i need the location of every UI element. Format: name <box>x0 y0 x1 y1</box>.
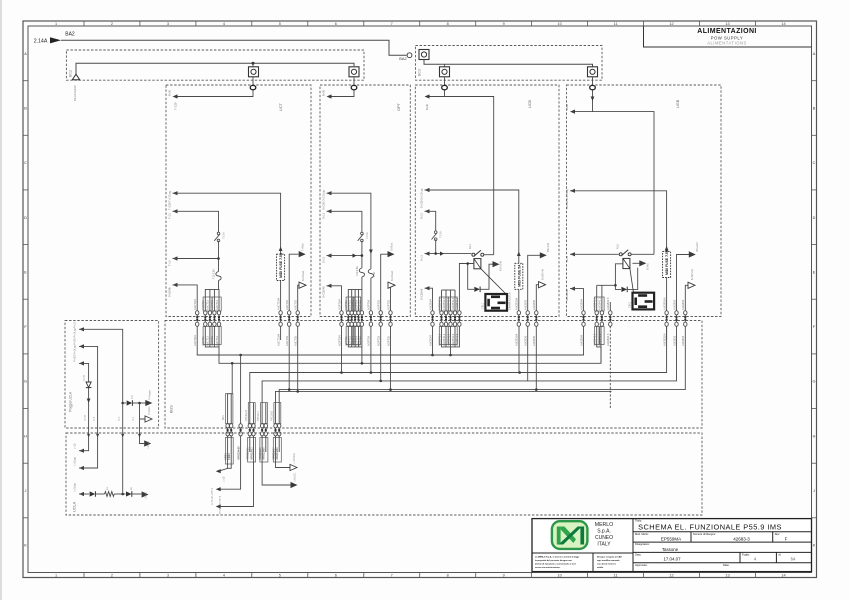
node junction UCB switch <box>434 252 437 255</box>
svg-text:AUCT14: AUCT14 <box>215 299 219 310</box>
svg-text:T+L3: T+L3 <box>169 260 172 266</box>
svg-text:B: B <box>24 107 27 111</box>
wire bus tap pair BR1 <box>231 362 234 365</box>
wire UGB to arrow B+5Po4 right <box>685 285 688 311</box>
svg-text:JC-18: JC-18 <box>85 414 87 421</box>
svg-text:Approvato:: Approvato: <box>635 563 648 567</box>
svg-text:B+15ae1: B+15ae1 <box>301 270 305 281</box>
relay RL2 coil <box>623 258 630 268</box>
svg-text:B.Po24d: B.Po24d <box>499 260 503 271</box>
svg-text:2.4m/BLK/UCLA: 2.4m/BLK/UCLA <box>508 292 511 310</box>
wire UGB net G+CB to fuse <box>570 189 575 193</box>
svg-text:F1 5A: F1 5A <box>223 232 226 239</box>
svg-text:13: 13 <box>725 22 729 26</box>
svg-text:B+5(Po4): B+5(Po4) <box>541 269 545 280</box>
svg-text:H: H <box>813 434 816 438</box>
svg-text:MIDI FUSE 7.5A: MIDI FUSE 7.5A <box>665 249 669 275</box>
connector BC2-1 <box>252 62 255 65</box>
pins UGB bottom connector row <box>583 311 585 327</box>
svg-text:AUGB35: AUGB35 <box>681 299 685 310</box>
svg-text:AUCT3/4: AUCT3/4 <box>193 335 197 346</box>
svg-text:F1 5A: F1 5A <box>366 232 369 239</box>
wire BC3-2 to UCB <box>444 77 446 86</box>
breaker F12 UCT <box>218 259 220 272</box>
wire UCB net B+L3 to relay RL1 <box>425 252 430 256</box>
svg-text:Data:: Data: <box>723 563 729 567</box>
svg-text:AUGB3/4: AUGB3/4 <box>579 334 583 346</box>
svg-text:B+13: B+13 <box>421 213 424 219</box>
svg-text:5: 5 <box>279 22 281 26</box>
module box OPT <box>320 85 410 317</box>
svg-text:AUGB33: AUGB33 <box>672 299 676 310</box>
label boxes UCT cluster <box>203 297 212 311</box>
wire UCLA right net e <box>262 436 291 485</box>
wire net P+LS <box>79 327 84 331</box>
diode D2 UGB <box>621 287 627 292</box>
svg-text:Disegnatore:: Disegnatore: <box>635 542 650 546</box>
relay RL1 coil <box>474 259 481 269</box>
wire pair mate 2 <box>253 403 255 424</box>
svg-text:AUGB35: AUGB35 <box>681 335 685 346</box>
node junction pioggia <box>121 402 124 405</box>
svg-text:D: D <box>24 216 27 220</box>
svg-text:UGB: UGB <box>676 99 680 108</box>
node junction UCT <box>217 257 220 260</box>
svg-text:CBL1: CBL1 <box>481 302 484 309</box>
svg-text:T+C3B T+C.BLog: T+C3B T+C.BLog <box>169 190 172 210</box>
svg-text:B9+24d: B9+24d <box>546 242 550 252</box>
wire UCLA net L+3Log <box>79 466 84 470</box>
wire UCLA right net c <box>219 436 254 507</box>
svg-text:4: 4 <box>223 22 225 26</box>
wire BA2 rail <box>61 40 407 55</box>
wire UGB to arrow B+Fuse <box>677 255 690 312</box>
module box UCB <box>415 85 559 317</box>
svg-text:SCHEMA EL. FUNZIONALE P55.9: SCHEMA EL. FUNZIONALE P55.9 IMS <box>638 522 782 531</box>
switch F1 OPT <box>361 232 364 235</box>
svg-text:AUCB35: AUCB35 <box>532 299 536 310</box>
svg-text:O+13: O+13 <box>323 212 326 219</box>
svg-text:AOPT33: AOPT33 <box>377 299 381 310</box>
label box pair BR1 <box>225 394 233 424</box>
module box UGB <box>567 85 722 317</box>
svg-text:L+/3Log: L+/3Log <box>74 483 77 492</box>
svg-text:AOPT12: AOPT12 <box>348 299 352 310</box>
svg-text:2: 2 <box>111 22 113 26</box>
label box pair 2 <box>248 403 255 424</box>
connector block CBL1 <box>485 294 507 311</box>
wire UCB net B+CB to fuse <box>425 188 430 192</box>
wire bus tap FHC2A+B <box>240 355 242 424</box>
svg-text:P+LS: P+LS <box>74 322 77 328</box>
svg-text:AOPT34: AOPT34 <box>367 299 371 310</box>
arrow B.Motorino UGB <box>633 262 640 264</box>
arrow flow marker UCB <box>440 252 444 256</box>
svg-text:FHC1A.1: FHC1A.1 <box>257 410 260 421</box>
svg-text:12: 12 <box>669 574 673 578</box>
wire pioggia to P+Power <box>123 402 126 404</box>
title block rows <box>633 531 812 533</box>
svg-text:42683-3: 42683-3 <box>733 536 750 541</box>
svg-text:B+C3B/A8: B+C3B/A8 <box>421 288 424 300</box>
wire UCB to arrow B+5Po4 <box>536 285 538 311</box>
sheet header box ALIMENTAZIONI <box>644 26 812 47</box>
svg-text:AOPT14: AOPT14 <box>354 299 358 310</box>
svg-text:CBL2: CBL2 <box>629 301 632 308</box>
svg-text:B.Mot: B.Mot <box>645 263 649 270</box>
svg-text:H: H <box>24 434 27 438</box>
svg-text:B: B <box>813 107 816 111</box>
svg-text:7: 7 <box>391 22 393 26</box>
svg-text:12: 12 <box>669 22 673 26</box>
svg-text:P+/SD P+/3Log: P+/SD P+/3Log <box>74 328 77 345</box>
label boxes OPT cluster <box>346 297 354 311</box>
svg-text:AUGB3/4: AUGB3/4 <box>579 298 583 310</box>
frame ruler ticks and letters left/right <box>23 81 817 518</box>
frame ruler ticks and numbers top/bottom <box>84 21 756 578</box>
link line RL2 to connector CBL2 <box>630 269 634 293</box>
svg-text:G+L3: G+L3 <box>566 255 569 262</box>
svg-text:CUNEO: CUNEO <box>595 535 613 541</box>
wire UGB net G+30 single pin <box>570 287 575 291</box>
wire RL2 coil loop with diode <box>615 264 623 290</box>
svg-text:P+Power: P+Power <box>148 390 151 400</box>
pins UCB bottom connector row <box>432 311 434 327</box>
wire bus stubs misc <box>280 326 282 340</box>
svg-text:L+5/Po4o: L+5/Po4o <box>293 453 296 464</box>
arrow B+24d UCB <box>493 261 500 267</box>
wire OPT net O+13 to switch <box>327 209 332 213</box>
svg-text:4: 4 <box>223 574 225 578</box>
svg-text:J: J <box>813 489 815 493</box>
svg-text:B+15ae1: B+15ae1 <box>390 270 394 281</box>
wires pioggia into UCLA <box>88 424 90 438</box>
node UCT supply entry circle <box>250 85 256 89</box>
svg-text:B+C3B B+C.BLog: B+C3B B+C.BLog <box>421 188 424 208</box>
arrow flow marker OPT riser <box>369 250 373 255</box>
svg-text:divieto di riprodurlo o comuni: divieto di riprodurlo o comunicarlo a te… <box>535 563 576 566</box>
wire UCT net B+30Wh <box>173 283 178 287</box>
svg-text:F12 0.5A: F12 0.5A <box>356 266 359 276</box>
svg-text:1: 1 <box>55 22 57 26</box>
pins UCT bottom connector row <box>196 311 198 327</box>
wire BC2-2 to OPT <box>353 77 355 86</box>
svg-text:K: K <box>813 544 816 548</box>
svg-text:8: 8 <box>447 22 449 26</box>
wire bus net 5 <box>279 326 685 424</box>
wire UGB supply to relay riser <box>593 112 655 255</box>
wire UCB supply entry <box>426 91 445 97</box>
svg-text:UCT: UCT <box>279 103 283 111</box>
wire bus net 2 <box>219 347 601 363</box>
svg-text:2.5A: 2.5A <box>373 272 376 277</box>
wire UCLA net L+15 <box>79 449 84 453</box>
breaker F12 OPT <box>361 256 363 268</box>
svg-text:Gm35Ao Gm30o.4: Gm35Ao Gm30o.4 <box>219 495 222 514</box>
svg-text:G: G <box>813 380 816 384</box>
wire OPT net O+30Wh <box>327 284 332 288</box>
wire bus tap UCB comb <box>442 326 460 347</box>
node junction UCLA <box>121 493 124 496</box>
fuse MIDI FUSE UCB <box>515 263 523 289</box>
wire UCT to arrow T+Batt <box>289 254 299 311</box>
svg-text:AUCB31/4: AUCB31/4 <box>515 333 519 346</box>
node UCB supply entry circle <box>442 85 448 89</box>
disclaimer cells <box>532 552 633 554</box>
svg-text:AUGB41.2: AUGB41.2 <box>598 297 602 310</box>
svg-text:AUCB41.2: AUCB41.2 <box>442 333 446 346</box>
svg-text:AUCT3/4: AUCT3/4 <box>193 299 197 310</box>
svg-text:P+/SD P+/3Log: P+/SD P+/3Log <box>74 345 77 362</box>
svg-text:14: 14 <box>781 22 785 26</box>
svg-text:T+C3B: T+C3B <box>175 102 178 110</box>
wire OPT net O+L3 <box>327 254 332 258</box>
svg-text:BA2: BA2 <box>399 56 407 61</box>
node junction OPT <box>361 254 364 257</box>
svg-text:MIDI FUSE 5A: MIDI FUSE 5A <box>517 264 521 287</box>
wire BC3 bus <box>424 60 593 67</box>
svg-text:AOPT3/4: AOPT3/4 <box>337 335 341 346</box>
svg-text:BA2: BA2 <box>65 32 75 38</box>
svg-text:3: 3 <box>167 574 169 578</box>
svg-text:BC3: BC3 <box>418 69 422 76</box>
wire UCB supply to relay riser <box>445 97 494 255</box>
svg-text:AOPT35: AOPT35 <box>386 299 390 310</box>
svg-text:10: 10 <box>557 574 561 578</box>
wire pair mate 3 <box>265 403 267 424</box>
svg-text:MHC2A+B: MHC2A+B <box>236 447 240 460</box>
svg-text:11: 11 <box>614 574 618 578</box>
svg-text:AOPT3/4: AOPT3/4 <box>337 299 341 310</box>
wire UCT switch to junction <box>218 241 220 259</box>
wire UCLA right net f <box>276 436 291 468</box>
wire UCLA net LM+ao <box>140 437 145 444</box>
wire relay RL1 to riser <box>484 254 494 256</box>
svg-text:LM+a.i: LM+a.i <box>145 491 148 499</box>
svg-text:AUCB35: AUCB35 <box>532 335 536 346</box>
wire bus net 1 <box>197 326 583 355</box>
svg-text:J: J <box>25 489 27 493</box>
switch F1 UCT <box>217 232 220 235</box>
svg-text:FHC1A.8: FHC1A.8 <box>271 410 274 421</box>
label box pair 4 <box>274 403 281 424</box>
svg-text:AUCT12: AUCT12 <box>206 299 210 310</box>
wire OPT to arrow O+Batt <box>381 254 388 311</box>
svg-text:Tassone: Tassone <box>662 547 679 552</box>
svg-text:ITALY: ITALY <box>597 542 611 548</box>
connector BC3-3 <box>588 67 598 77</box>
svg-text:AUGB41.5: AUGB41.5 <box>606 333 610 346</box>
svg-text:A: A <box>813 52 816 56</box>
label boxes UCLA pair <box>225 438 233 465</box>
svg-text:O+C3B/A8: O+C3B/A8 <box>323 286 326 298</box>
svg-text:AOPT34: AOPT34 <box>367 335 371 346</box>
link line RL1 to connector CBL1 <box>481 269 506 294</box>
svg-text:L+/3Log L+30/e.4: L+/3Log L+30/e.4 <box>212 487 214 505</box>
wire UCLA stubs <box>249 436 251 452</box>
svg-text:64: 64 <box>791 557 796 562</box>
wire UCT comb in bus <box>205 326 219 347</box>
svg-text:O+C3B O+C.BLog: O+C3B O+C.BLog <box>323 190 326 210</box>
svg-text:JC-18: JC-18 <box>84 374 86 381</box>
breaker F13 OPT <box>368 269 373 278</box>
wire bus tap OPT comb <box>361 362 364 365</box>
connector BC3-1 <box>419 50 429 60</box>
svg-text:G+C3B G+C.BLog: G+C3B G+C.BLog <box>566 189 569 209</box>
connector block CBL2 <box>633 293 655 310</box>
svg-text:O+Batt: O+Batt <box>389 243 393 251</box>
ground terminal triangle BC2 <box>72 74 79 80</box>
node UGB supply entry circle <box>590 85 596 89</box>
svg-text:RL1: RL1 <box>468 244 472 249</box>
svg-text:Rev:: Rev: <box>775 532 781 536</box>
wire BC2-1 to UCT <box>252 77 254 86</box>
svg-text:F1 5A: F1 5A <box>440 231 443 238</box>
wire UCT net T+13 to switch F1 <box>173 209 178 213</box>
wire UCT net T+CB to fuse F11 <box>173 191 178 195</box>
wire bus net 4 <box>262 326 676 424</box>
svg-text:10: 10 <box>557 22 561 26</box>
wire UCT net T+L3 <box>173 256 178 260</box>
wire BC3-3 to UGB <box>592 77 594 86</box>
svg-text:AOPT35: AOPT35 <box>386 335 390 346</box>
wire UCT pin comb <box>205 289 219 311</box>
svg-text:K: K <box>24 544 27 548</box>
junction box BC3 <box>416 46 603 81</box>
svg-text:B+30: B+30 <box>425 103 429 110</box>
wire bus tap UCB single <box>432 326 434 355</box>
svg-text:valida.: valida. <box>597 567 604 569</box>
svg-text:2.14A: 2.14A <box>34 38 48 44</box>
wire BC2 bus bar <box>76 63 354 76</box>
svg-text:D: D <box>813 216 816 220</box>
svg-text:AUCB33: AUCB33 <box>524 335 528 346</box>
svg-text:G+C3B/A8: G+C3B/A8 <box>566 289 569 301</box>
svg-text:RL2: RL2 <box>616 244 620 249</box>
svg-text:17.04.07: 17.04.07 <box>663 557 681 562</box>
wire UCT fuse to pin <box>280 281 282 312</box>
svg-text:L+15: L+15 <box>223 476 226 482</box>
wire UCLA right net a <box>227 436 229 468</box>
diode D1 UCB <box>474 287 480 292</box>
svg-text:L+/3Log: L+/3Log <box>74 457 77 466</box>
wire OPT to arrow O+15ae1 <box>388 285 391 311</box>
wire UCB comb pins <box>441 290 443 311</box>
wire net P+SD <box>79 344 84 348</box>
wire UCT breaker to comb <box>218 281 220 290</box>
svg-text:Data:: Data: <box>635 553 641 557</box>
wire bus net 3 <box>250 326 667 424</box>
diode D3 pioggia <box>86 382 91 387</box>
svg-text:AUCT33: AUCT33 <box>285 335 289 346</box>
svg-text:F12 0.5A: F12 0.5A <box>213 269 216 279</box>
wire UCB to arrow B9+24d <box>528 255 540 311</box>
node OPT supply entry circle <box>351 85 357 89</box>
svg-text:F: F <box>785 536 788 541</box>
wire RL1 coil loop with diode <box>459 264 474 312</box>
wire OPT supply entry <box>332 91 355 97</box>
svg-text:AUCB3/4: AUCB3/4 <box>428 299 432 310</box>
wire UGB supply entry <box>572 91 593 112</box>
wire pioggia to P+Sens <box>140 403 146 419</box>
svg-text:MIDI FUSE 7.5A: MIDI FUSE 7.5A <box>279 252 283 278</box>
svg-text:B9+24d: B9+24d <box>695 242 699 252</box>
title block outline <box>532 519 812 572</box>
wire UCLA right net b <box>219 436 241 489</box>
svg-text:B+5(Po4): B+5(Po4) <box>690 269 694 280</box>
svg-text:AUGB41.5: AUGB41.5 <box>606 297 610 310</box>
svg-text:ALIMENTAZIONI: ALIMENTAZIONI <box>697 28 757 35</box>
svg-text:la proprietà del presente dise: la proprietà del presente disegno con <box>535 559 573 562</box>
svg-text:AOPT15: AOPT15 <box>358 299 362 310</box>
module box UCLA <box>66 433 702 515</box>
svg-text:AUCT31/4: AUCT31/4 <box>276 333 280 346</box>
svg-text:2: 2 <box>111 574 113 578</box>
svg-text:5: 5 <box>279 574 281 578</box>
svg-text:OPT: OPT <box>397 103 401 111</box>
svg-text:T+13: T+13 <box>169 213 172 219</box>
svg-text:T+Batt: T+Batt <box>301 243 305 251</box>
svg-text:Pioggia UCLA: Pioggia UCLA <box>69 391 73 412</box>
svg-text:G: G <box>24 380 27 384</box>
svg-text:di:: di: <box>778 553 781 557</box>
svg-text:BUS: BUS <box>170 405 174 413</box>
svg-text:Numero di Disegno:: Numero di Disegno: <box>693 532 716 536</box>
label boxes UCB cluster <box>439 297 448 311</box>
svg-text:AUCT35: AUCT35 <box>294 335 298 346</box>
fuse MIDI FUSE UGB <box>663 252 671 278</box>
svg-text:L+15: L+15 <box>74 443 77 449</box>
bus box BUS <box>165 321 702 429</box>
wire UCB net B+13 to switch <box>425 209 430 213</box>
svg-text:AUCB31/4: AUCB31/4 <box>515 297 519 310</box>
switch F1 UCB <box>434 231 437 234</box>
wire UCT to arrow B+15ae1 <box>298 285 299 311</box>
svg-text:BELA3GE00: BELA3GE00 <box>73 85 77 101</box>
svg-text:E: E <box>24 270 27 274</box>
arrow up on UCB fuse wire <box>517 252 521 257</box>
node BA2 terminal circle <box>407 53 412 58</box>
svg-text:9: 9 <box>503 574 505 578</box>
svg-text:AUCT31/4: AUCT31/4 <box>276 297 280 310</box>
svg-text:La MERLO S.p.A. si riserva a t: La MERLO S.p.A. si riserva a termini di … <box>535 556 580 559</box>
wire UCLA diode chain <box>79 492 84 496</box>
svg-text:AUCB3/4: AUCB3/4 <box>428 335 432 346</box>
fuse F11 MIDI FUSE UCT <box>277 254 285 280</box>
svg-text:14: 14 <box>781 574 785 578</box>
diode D4 UCLA <box>90 491 96 496</box>
wire UGB net G+L3 to relay RL2 <box>570 252 575 256</box>
logo MERLO <box>552 521 588 549</box>
svg-text:A: A <box>24 52 27 56</box>
arrow flow marker OPT <box>353 254 357 258</box>
svg-text:AUCB33: AUCB33 <box>524 299 528 310</box>
wire UCB net B+30 single pin <box>425 286 430 290</box>
svg-text:BC2: BC2 <box>69 70 73 77</box>
wire OPT pin comb <box>348 289 362 311</box>
svg-text:AUCT35: AUCT35 <box>294 299 298 310</box>
svg-text:E: E <box>813 270 816 274</box>
wire net P+3Log <box>79 361 84 365</box>
svg-text:Mod. Merlo:: Mod. Merlo: <box>635 532 649 536</box>
wire bus net 6 <box>276 391 612 423</box>
svg-text:3: 3 <box>167 22 169 26</box>
wire diode to bottom <box>88 388 90 424</box>
svg-text:LMo18.1: LMo18.1 <box>294 472 297 482</box>
pins OPT bottom connector row <box>341 311 343 327</box>
arrow up on UCT fuse wire <box>279 247 283 252</box>
svg-text:FHC2A+B: FHC2A+B <box>245 410 248 421</box>
